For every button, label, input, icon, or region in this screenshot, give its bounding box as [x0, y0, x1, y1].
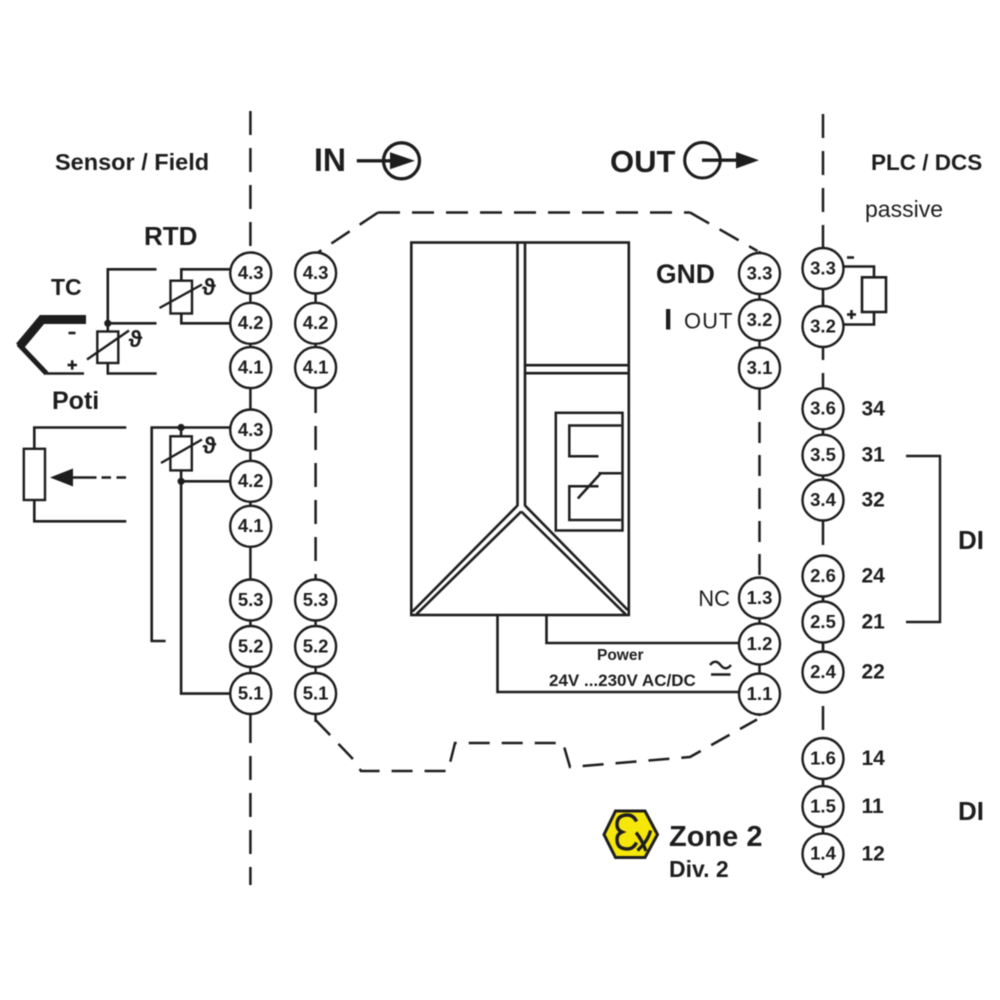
svg-text:22: 22 — [862, 661, 885, 684]
svg-text:11: 11 — [862, 795, 885, 818]
DI bracket — [906, 456, 940, 622]
svg-text:31: 31 — [862, 444, 886, 467]
svg-text:4.2: 4.2 — [238, 470, 264, 491]
thermocouple TC symbol — [19, 320, 87, 374]
svg-text:32: 32 — [862, 489, 885, 512]
isolation pyramid double lines — [413, 506, 628, 615]
device input terminal 4.2 — [295, 303, 336, 344]
device outline right diagonal dashed — [690, 213, 758, 252]
svg-text:Poti: Poti — [52, 387, 99, 415]
svg-text:ϑ: ϑ — [202, 274, 216, 300]
PLC terminal 3.4 — [803, 480, 844, 521]
device body box — [411, 243, 629, 616]
svg-text:GND: GND — [656, 259, 715, 289]
output load resistor body — [862, 277, 886, 312]
svg-text:Div. 2: Div. 2 — [669, 856, 729, 882]
OUT arrow icon — [685, 142, 759, 178]
svg-text:3.2: 3.2 — [747, 309, 773, 330]
PLC terminal 2.5 — [803, 602, 844, 643]
svg-text:14: 14 — [862, 747, 886, 770]
svg-text:RTD: RTD — [144, 221, 197, 251]
junction node at 4.3 wire — [178, 424, 185, 431]
label I OUT — [664, 304, 733, 337]
RTD resistor R-theta1 wire to 4.2 — [181, 313, 230, 323]
svg-text:24: 24 — [862, 565, 886, 588]
PLC terminal 3.2 — [803, 306, 844, 347]
compensating resistor R-theta2 body — [97, 332, 118, 364]
svg-text:1.3: 1.3 — [747, 587, 773, 608]
DIP icon lower switch symbol — [569, 473, 621, 520]
svg-text:24V ...230V AC/DC: 24V ...230V AC/DC — [549, 671, 696, 690]
device output terminal 3.2 — [739, 300, 780, 341]
svg-text:3.6: 3.6 — [810, 398, 836, 419]
TC plus sign — [68, 360, 78, 369]
PLC terminal 3.3 — [803, 248, 844, 289]
output minus sign — [847, 256, 854, 259]
svg-text:OUT: OUT — [610, 144, 676, 179]
long wire down to 5.1 — [181, 481, 231, 693]
svg-text:OUT: OUT — [684, 309, 733, 334]
input terminal col A 4.3 — [230, 410, 271, 451]
svg-text:21: 21 — [862, 611, 886, 634]
svg-text:34: 34 — [862, 397, 886, 420]
wire junction to 4.2 second — [181, 480, 231, 483]
junction node at 4.2 wire — [178, 478, 185, 485]
input terminal col A 4.3 — [230, 253, 271, 294]
svg-text:3.3: 3.3 — [810, 257, 836, 278]
svg-text:5.2: 5.2 — [303, 635, 329, 656]
svg-text:TC: TC — [51, 274, 82, 300]
input terminal col A 4.2 — [230, 461, 271, 502]
potentiometer top wire — [34, 428, 126, 449]
device output terminal 1.2 — [739, 624, 780, 665]
output load wire from 3.2 — [844, 312, 875, 325]
PLC terminal 1.6 — [803, 738, 844, 779]
DIP icon upper contact symbol — [569, 426, 621, 457]
TC minus sign — [69, 332, 76, 335]
PLC-side zone boundary dashed line — [822, 114, 825, 886]
svg-text:Sensor / Field: Sensor / Field — [55, 149, 209, 175]
output load wire from 3.3 — [844, 267, 875, 278]
device output terminal 1.3 — [739, 578, 780, 619]
potentiometer body — [24, 449, 45, 500]
device outline bottom dashed path — [316, 720, 757, 772]
device input terminal 5.3 — [295, 580, 336, 621]
RTD resistor R-theta1 diagonal — [160, 285, 203, 309]
svg-text:3.1: 3.1 — [747, 357, 773, 378]
output plus sign — [847, 310, 856, 319]
svg-text:4.3: 4.3 — [238, 262, 264, 283]
svg-text:ϑ: ϑ — [203, 433, 217, 459]
PLC terminal 3.6 — [803, 388, 844, 429]
svg-text:2.6: 2.6 — [810, 565, 836, 586]
svg-text:1.6: 1.6 — [810, 747, 836, 768]
svg-text:4.2: 4.2 — [303, 312, 329, 333]
input terminal col A 5.2 — [230, 626, 271, 667]
svg-text:5.3: 5.3 — [238, 589, 264, 610]
svg-text:4.1: 4.1 — [238, 515, 264, 536]
device output terminal 3.3 — [739, 253, 780, 294]
device outline left diagonal dashed — [316, 213, 378, 255]
svg-text:4.3: 4.3 — [303, 262, 329, 283]
TC open wire bracket — [108, 269, 157, 323]
svg-text:1.5: 1.5 — [810, 795, 836, 816]
device outline top dashed — [378, 211, 690, 214]
svg-text:DI: DI — [958, 525, 984, 555]
svg-text:3.5: 3.5 — [810, 444, 836, 465]
PLC terminal 1.5 — [803, 786, 844, 827]
svg-text:I: I — [664, 304, 672, 337]
svg-text:PLC / DCS: PLC / DCS — [871, 150, 982, 175]
power supply wire to terminal 1.2 — [547, 615, 740, 643]
svg-text:1.2: 1.2 — [747, 633, 773, 654]
svg-text:5.1: 5.1 — [238, 682, 264, 703]
poti network elbow wire down to stub — [152, 428, 231, 642]
PLC terminal 2.4 — [803, 652, 844, 693]
Ex hexagon logo — [604, 811, 658, 858]
svg-text:ϑ: ϑ — [129, 326, 143, 352]
compensating resistor R-theta2 leads — [108, 323, 157, 373]
device outline left vertical through terminals 4.x 5.x — [314, 254, 317, 722]
device output terminal 1.1 — [739, 674, 780, 715]
poti resistor R-theta3 body — [170, 436, 191, 470]
sensor-side zone boundary dashed line — [249, 111, 252, 885]
input terminal col A 4.1 — [230, 506, 271, 547]
poti resistor R-theta3 diagonal — [161, 440, 202, 464]
DIP-switch configuration icon frame — [556, 413, 623, 531]
device outline right vertical through terminals 3.x 1.x — [758, 251, 761, 716]
svg-text:2.5: 2.5 — [810, 611, 836, 632]
potentiometer bottom wire — [34, 500, 126, 521]
svg-text:1.4: 1.4 — [810, 843, 836, 864]
svg-text:4.3: 4.3 — [238, 419, 264, 440]
PLC terminal 1.4 — [803, 833, 844, 874]
input terminal col A 4.1 — [230, 347, 271, 388]
svg-text:Power: Power — [597, 647, 644, 664]
svg-text:2.4: 2.4 — [810, 661, 836, 682]
device input terminal 5.1 — [295, 673, 336, 714]
device input terminal 4.3 — [295, 253, 336, 294]
poti resistor R-theta3 leads — [180, 428, 183, 482]
svg-text:3.4: 3.4 — [810, 489, 836, 510]
svg-text:IN: IN — [314, 142, 346, 178]
PLC terminal 2.6 — [803, 556, 844, 597]
isolation channel double line — [518, 243, 526, 507]
device input terminal 5.2 — [295, 626, 336, 667]
device output terminal 3.1 — [739, 348, 780, 389]
compensating resistor R-theta2 diagonal — [87, 331, 129, 360]
svg-text:4.1: 4.1 — [238, 356, 264, 377]
svg-text:1.1: 1.1 — [747, 683, 773, 704]
potentiometer wiper arrow — [50, 469, 126, 487]
svg-text:5.1: 5.1 — [303, 682, 329, 703]
device input terminal 4.1 — [295, 347, 336, 388]
input terminal col A 5.1 — [230, 673, 271, 714]
input terminal col A 5.3 — [230, 580, 271, 621]
PLC terminal 3.5 — [803, 435, 844, 476]
junction node TC/compensator — [104, 320, 111, 327]
svg-text:5.2: 5.2 — [238, 635, 264, 656]
output section divider double line — [525, 365, 629, 373]
svg-text:4.2: 4.2 — [238, 312, 264, 333]
RTD resistor R-theta1 body — [171, 281, 193, 314]
power supply wire to terminal 1.1 — [498, 615, 740, 692]
input terminal col A 4.2 — [230, 303, 271, 344]
RTD resistor R-theta1 wire to 4.3 — [181, 269, 230, 281]
svg-text:Zone 2: Zone 2 — [669, 821, 762, 853]
svg-text:3.2: 3.2 — [810, 315, 836, 336]
svg-text:4.1: 4.1 — [303, 356, 329, 377]
svg-text:DI: DI — [958, 796, 984, 826]
svg-text:NC: NC — [698, 586, 730, 611]
svg-text:3.3: 3.3 — [747, 262, 773, 283]
AC/DC symbol — [710, 662, 731, 675]
IN arrow icon — [357, 143, 420, 179]
svg-text:5.3: 5.3 — [303, 589, 329, 610]
svg-text:passive: passive — [865, 196, 943, 222]
svg-text:12: 12 — [862, 842, 885, 865]
